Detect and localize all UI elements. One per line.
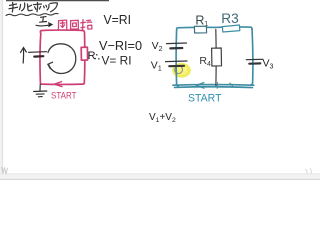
- svg-text:V−RI=0: V−RI=0: [99, 38, 142, 53]
- svg-text:R: R: [88, 50, 96, 62]
- svg-text:V=RI: V=RI: [104, 12, 132, 27]
- svg-text:V1+V2: V1+V2: [149, 112, 176, 124]
- svg-text:START: START: [51, 91, 77, 102]
- svg-text:START: START: [188, 93, 222, 105]
- svg-text:V= RI: V= RI: [102, 54, 132, 68]
- svg-text:R3: R3: [221, 11, 239, 26]
